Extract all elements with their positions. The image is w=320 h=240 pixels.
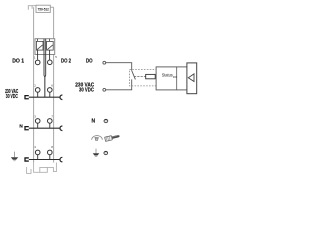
earth symbol left	[11, 152, 18, 161]
supply bus 230VAC row 2	[29, 96, 60, 98]
relay coil	[146, 74, 156, 78]
terminal circle pin 7	[48, 119, 53, 124]
supply node circle	[103, 88, 106, 91]
internal wire from test tap to supply bus	[44, 76, 46, 97]
cage clamp block outline	[35, 39, 55, 55]
electronics box with status	[156, 67, 187, 90]
terminal circle pin 6	[48, 88, 53, 93]
earth bus row 4	[29, 159, 60, 161]
svg-text:750-512: 750-512	[38, 7, 49, 11]
supply terminal lug row 2	[25, 96, 29, 99]
terminal circle pin 2	[35, 88, 40, 93]
svg-text:DO 1: DO 1	[12, 59, 24, 65]
terminal circle pin 4	[35, 150, 40, 155]
svg-text:30 VDC: 30 VDC	[6, 94, 18, 100]
wire coil to electronics	[155, 76, 156, 78]
electronics box divider	[176, 67, 178, 90]
bus interface triangle	[188, 74, 194, 82]
svg-text:DO: DO	[86, 59, 93, 65]
label 230 VAC / 30 VDC right	[75, 82, 94, 93]
module top latch tab	[28, 6, 36, 10]
stem pin 3	[37, 123, 39, 128]
actuation link contact to coil	[134, 76, 146, 78]
label 230 VAC / 30 VDC left	[5, 89, 18, 100]
module body outline	[34, 7, 54, 162]
relay contact blade	[132, 70, 136, 79]
stem pin 6	[49, 92, 51, 97]
legend contact socket upper	[104, 119, 108, 122]
bus interface box	[187, 63, 197, 94]
svg-text:N: N	[92, 118, 96, 124]
terminal circle pin 1	[35, 60, 40, 65]
power jumper contact arc row 4	[60, 157, 62, 162]
stem pin 2	[37, 92, 39, 97]
stem pin 4	[37, 155, 39, 160]
svg-text:DO: DO	[173, 75, 177, 79]
svg-text:30 VDC: 30 VDC	[79, 88, 94, 94]
svg-text:Status: Status	[162, 72, 173, 77]
wire stem pin 1	[37, 50, 39, 60]
N bus row 3	[29, 127, 60, 129]
DO output node circle	[103, 61, 106, 64]
wire stem pin 5	[49, 50, 51, 60]
earth terminal lug row 4	[25, 158, 29, 161]
legend earth symbol	[93, 149, 100, 157]
label box 750-512	[36, 5, 50, 12]
power jumper contact arc row 2	[60, 95, 62, 100]
cage clamp cell 2	[47, 39, 54, 50]
legend field supply icon	[92, 136, 103, 141]
legend blade contact icon	[105, 134, 120, 142]
test tap slot between clamps	[44, 39, 46, 77]
terminal circle pin 8	[48, 150, 53, 155]
N terminal lug row 3	[25, 127, 29, 130]
module foot profile	[27, 163, 57, 174]
terminal circle pin 5	[48, 60, 53, 65]
stem pin 7	[49, 123, 51, 128]
relay dashed enclosure	[129, 69, 156, 86]
power jumper contact arc row 3	[60, 126, 62, 131]
svg-text:DO 2: DO 2	[61, 59, 71, 65]
terminal circle pin 3	[35, 119, 40, 124]
legend contact socket lower	[104, 151, 108, 154]
wire DO to contact	[106, 63, 132, 71]
stem pin 8	[49, 155, 51, 160]
cage clamp cell 1	[36, 39, 43, 50]
wire contact to supply node	[106, 79, 132, 89]
